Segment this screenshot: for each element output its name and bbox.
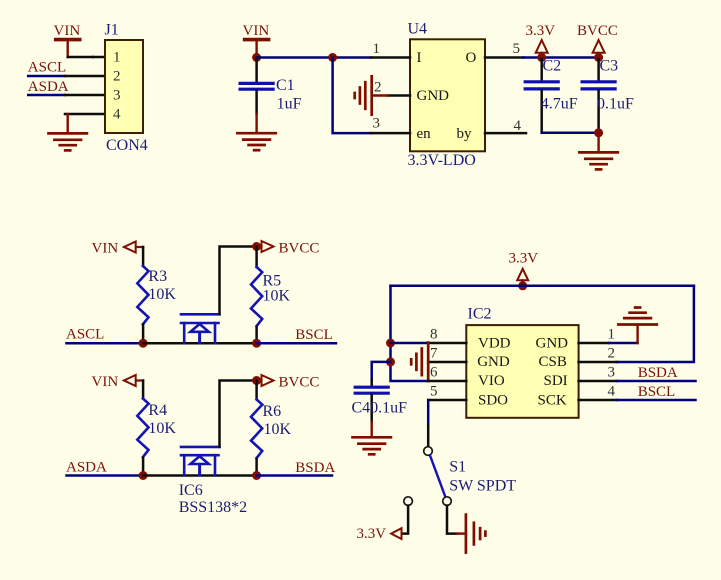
wire branch to en pin xyxy=(333,58,371,134)
node ASDA junction xyxy=(139,471,148,480)
resistor R6 xyxy=(251,400,262,459)
power port 3.3V (IC2) xyxy=(509,251,539,283)
svg-text:CSB: CSB xyxy=(539,354,567,370)
svg-text:ASCL: ASCL xyxy=(28,60,66,76)
svg-text:BVCC: BVCC xyxy=(279,375,320,391)
wire throw B to ground xyxy=(447,506,457,534)
svg-text:C2: C2 xyxy=(543,58,562,75)
pin 5 of U4 xyxy=(485,56,524,59)
svg-text:0.1uF: 0.1uF xyxy=(597,95,634,112)
svg-text:10K: 10K xyxy=(148,286,176,303)
wire ASDA xyxy=(28,94,65,97)
capacitor C2 plates xyxy=(525,82,558,89)
svg-text:4: 4 xyxy=(608,384,616,400)
capacitor C4 top lead xyxy=(370,380,373,386)
switch S1 common terminal xyxy=(424,447,433,456)
resistor R3 xyxy=(137,266,148,324)
svg-text:BSCL: BSCL xyxy=(638,384,676,400)
wire VIN to U4 pin1 xyxy=(257,56,371,59)
svg-text:U4: U4 xyxy=(408,20,428,37)
svg-text:1uF: 1uF xyxy=(277,96,302,113)
svg-text:3: 3 xyxy=(608,365,616,381)
pin 5 of IC2 xyxy=(428,399,466,402)
svg-text:VDD: VDD xyxy=(478,336,511,352)
node BVCC junction xyxy=(594,53,603,62)
svg-text:4.7uF: 4.7uF xyxy=(541,95,578,112)
svg-text:2: 2 xyxy=(608,346,616,362)
node 3.3V rail junction xyxy=(518,281,527,290)
pin 4 of U4 xyxy=(485,132,526,135)
power port BVCC (arrow right, SDA) xyxy=(257,375,320,391)
wire SDO down to switch xyxy=(427,400,430,425)
svg-text:IC6: IC6 xyxy=(179,482,203,499)
power port 3.3V (top) xyxy=(526,23,556,55)
node BVCC junction (lower) xyxy=(252,376,261,385)
wire pin4 to ground xyxy=(66,114,68,133)
wire BSCL (right) xyxy=(617,399,696,402)
resistor R4 xyxy=(137,399,148,458)
wire gate to BVCC (upper) xyxy=(220,247,257,315)
svg-text:4: 4 xyxy=(113,107,121,123)
capacitor C3 bottom lead xyxy=(597,91,600,133)
power port VIN (arrow left, SCL) xyxy=(92,240,144,256)
node BSCL junction xyxy=(252,339,261,348)
switch S1 lever xyxy=(430,455,445,495)
svg-text:S1: S1 xyxy=(449,459,466,476)
svg-text:BVCC: BVCC xyxy=(279,241,320,257)
wire C2 bottom to C3 bottom xyxy=(542,132,599,135)
capacitor C4 bottom lead xyxy=(370,395,373,422)
svg-text:GND: GND xyxy=(477,354,510,370)
power port 3.3V (arrow left, switch) xyxy=(357,526,402,542)
wire throw A to 3.3V xyxy=(403,506,409,534)
ground (U4 pin2, rotated left) xyxy=(355,76,372,114)
svg-text:J1: J1 xyxy=(105,22,119,39)
switch S1 throw B terminal xyxy=(443,497,452,506)
resistor R5 xyxy=(251,267,262,326)
svg-text:R4: R4 xyxy=(148,402,167,419)
ground (switch, rotated right) xyxy=(466,515,486,553)
wire BSDA (right) xyxy=(617,380,696,383)
ground (IC2 pin1, inverted) xyxy=(618,308,656,325)
svg-text:SCK: SCK xyxy=(538,392,567,408)
svg-text:3: 3 xyxy=(373,116,381,132)
wire BSCL xyxy=(257,342,336,345)
node en branch junction xyxy=(328,53,337,62)
ground stem (C1) xyxy=(255,114,257,133)
svg-text:4: 4 xyxy=(514,118,522,134)
svg-text:I: I xyxy=(417,50,422,66)
ground stem (C3) xyxy=(597,133,599,152)
capacitor C4 plates xyxy=(355,387,388,393)
svg-text:3.3V: 3.3V xyxy=(509,251,539,267)
svg-text:10K: 10K xyxy=(264,421,292,438)
svg-text:1: 1 xyxy=(608,327,616,343)
svg-text:BSCL: BSCL xyxy=(295,327,333,343)
svg-text:3.3V: 3.3V xyxy=(357,526,387,542)
wire gate to BVCC (lower) xyxy=(220,381,257,447)
power port VIN (LDO bar style) xyxy=(243,23,270,55)
ground stem (U4 pin2) xyxy=(372,94,388,96)
svg-text:5: 5 xyxy=(513,41,521,57)
svg-text:7: 7 xyxy=(430,346,438,362)
power port BVCC (top) xyxy=(577,23,618,55)
power port VIN (J1 bar style) xyxy=(54,23,81,57)
svg-text:1: 1 xyxy=(113,50,121,66)
svg-text:BSDA: BSDA xyxy=(638,365,678,381)
svg-text:10K: 10K xyxy=(263,287,291,304)
svg-text:VIN: VIN xyxy=(92,374,119,390)
ground stem (switch) xyxy=(457,532,466,534)
pin 3 of U4 xyxy=(371,132,410,135)
svg-text:C3: C3 xyxy=(600,58,619,75)
wire left rail down to VIO xyxy=(391,286,429,381)
node BSDA junction xyxy=(252,471,261,480)
resistor R6 bottom pin xyxy=(255,459,258,476)
svg-text:5: 5 xyxy=(430,384,438,400)
pin 4 of J1 xyxy=(65,113,105,116)
capacitor C1 plates xyxy=(240,83,273,89)
wire VDD branch xyxy=(391,342,429,345)
pin 3 of IC2 xyxy=(579,380,617,383)
transistor IC6 (lower MOSFET) xyxy=(181,447,220,475)
connector J1 body xyxy=(105,40,143,133)
svg-text:8: 8 xyxy=(430,327,438,343)
IC U1/IC2 body xyxy=(466,325,578,418)
wire pin5 to caps xyxy=(524,56,599,59)
resistor R4 bottom pin xyxy=(142,458,145,476)
capacitor C2 top lead xyxy=(540,59,543,80)
svg-text:10K: 10K xyxy=(148,420,176,437)
pin 8 of IC2 xyxy=(428,342,466,345)
pin 2 of IC2 xyxy=(579,361,617,364)
svg-text:BSDA: BSDA xyxy=(295,460,335,476)
resistor R3 top pin xyxy=(142,247,145,265)
wire right rail down to CSB xyxy=(617,286,694,362)
ground (J1) xyxy=(49,133,87,150)
wire ASDA junction to MOSFET (pins) xyxy=(143,474,257,477)
wire VIN to pin 1 xyxy=(68,56,93,59)
ground (C2/C3) xyxy=(579,152,617,169)
op-amp U4 body (3.3V LDO) xyxy=(410,39,485,151)
wire C4 branch xyxy=(372,362,391,380)
wire 3.3V top rail xyxy=(391,285,694,288)
svg-text:VIO: VIO xyxy=(478,373,505,389)
node VIN junction xyxy=(252,53,261,62)
svg-text:SDI: SDI xyxy=(544,373,568,389)
transistor Q (upper half of IC6) xyxy=(181,314,220,343)
capacitor C3 top lead xyxy=(597,59,600,80)
pin 1 of IC2 xyxy=(579,342,609,345)
power port BVCC (arrow right, SCL) xyxy=(257,241,320,257)
pin 1 of J1 xyxy=(93,56,105,59)
node VDD branch xyxy=(386,339,395,348)
capacitor C1 bottom lead xyxy=(255,91,258,114)
pin 7 of IC2 xyxy=(428,361,466,364)
svg-text:6: 6 xyxy=(430,365,438,381)
wire BSDA xyxy=(257,474,332,477)
wire ASCL xyxy=(67,342,144,345)
svg-text:IC2: IC2 xyxy=(468,306,492,323)
capacitor C2 bottom lead xyxy=(540,91,543,133)
pin 2 of J1 xyxy=(65,75,105,78)
svg-text:R6: R6 xyxy=(263,403,282,420)
svg-text:2: 2 xyxy=(113,69,121,85)
node 3.3V junction xyxy=(537,53,546,62)
svg-text:C1: C1 xyxy=(276,77,295,94)
svg-text:C40.1uF: C40.1uF xyxy=(352,399,408,416)
svg-text:GND: GND xyxy=(417,88,450,104)
switch S1 throw A terminal xyxy=(404,497,413,506)
ground (C4) xyxy=(353,437,391,454)
svg-text:CON4: CON4 xyxy=(106,137,148,154)
svg-text:VIN: VIN xyxy=(92,240,119,256)
svg-text:ASDA: ASDA xyxy=(28,79,69,95)
svg-text:2: 2 xyxy=(374,80,382,96)
capacitor C3 plates xyxy=(582,82,615,89)
wire ASCL junction to MOSFET (pins) xyxy=(143,342,257,345)
capacitor C1 top lead xyxy=(255,59,258,82)
svg-text:R3: R3 xyxy=(148,268,167,285)
svg-text:SDO: SDO xyxy=(478,392,508,408)
svg-text:BVCC: BVCC xyxy=(577,23,618,39)
svg-text:GND: GND xyxy=(536,336,569,352)
svg-text:1: 1 xyxy=(373,41,381,57)
svg-text:VIN: VIN xyxy=(54,23,81,39)
node C3 ground junction xyxy=(594,128,603,137)
pin 1 of U4 xyxy=(371,56,410,59)
resistor R3 bottom pin xyxy=(142,324,145,343)
svg-text:3.3V: 3.3V xyxy=(526,23,556,39)
svg-text:ASCL: ASCL xyxy=(66,326,104,342)
pin 2 of U4 xyxy=(388,94,410,97)
node C4 branch xyxy=(386,357,395,366)
svg-text:ASDA: ASDA xyxy=(66,459,107,475)
wire ASDA xyxy=(67,474,144,477)
svg-text:en: en xyxy=(417,126,432,142)
svg-text:VIN: VIN xyxy=(243,23,270,39)
power port VIN (arrow left, SDA) xyxy=(92,374,144,390)
node BVCC junction (upper) xyxy=(252,242,261,251)
ground stem (C4) xyxy=(371,422,373,437)
resistor R5 top pin xyxy=(255,247,258,268)
pin 3 of J1 xyxy=(65,94,105,97)
pin 6 of IC2 xyxy=(428,380,466,383)
ground (IC2 pin7, rotated left) xyxy=(411,343,428,381)
wire ASCL xyxy=(28,75,65,78)
node ASCL junction xyxy=(139,339,148,348)
pin 4 of IC2 xyxy=(579,399,617,402)
ground stem (IC2 pin1) xyxy=(636,325,638,343)
svg-text:3: 3 xyxy=(113,88,121,104)
resistor R6 top pin xyxy=(255,381,258,400)
resistor R5 bottom pin xyxy=(255,327,258,343)
resistor R4 top pin xyxy=(142,381,145,399)
svg-text:by: by xyxy=(457,126,473,142)
svg-text:3.3V-LDO: 3.3V-LDO xyxy=(408,152,476,169)
svg-text:SW SPDT: SW SPDT xyxy=(449,478,516,495)
svg-text:BSS138*2: BSS138*2 xyxy=(179,499,247,516)
ground (C1) xyxy=(237,133,275,150)
svg-text:O: O xyxy=(466,50,477,66)
